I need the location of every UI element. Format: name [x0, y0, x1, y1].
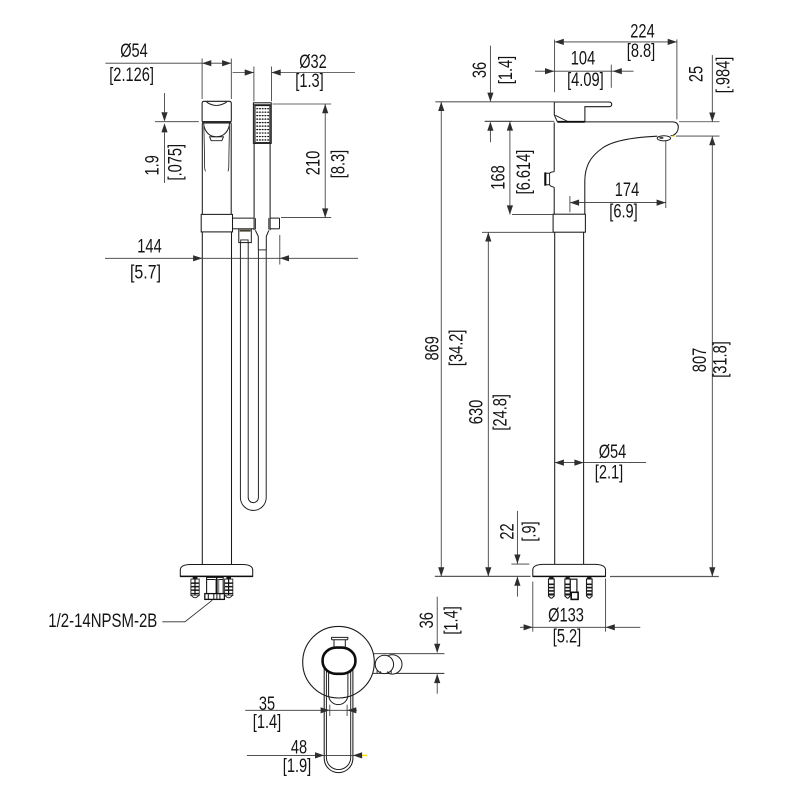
svg-text:[5.2]: [5.2]: [553, 626, 582, 647]
svg-text:[2.1]: [2.1]: [595, 463, 624, 484]
side view: hose nut: [571, 592, 578, 599]
dimension 224 overall depth: [554, 40, 556, 93]
svg-text:36: 36: [470, 62, 491, 78]
side view: holder collar: [553, 214, 585, 232]
front view: fitting notch: [241, 240, 248, 243]
floor line right segment: [610, 576, 719, 578]
front view: spray nozzle dots: [256, 108, 269, 141]
dimension 174 spout reach: [569, 196, 571, 212]
side view: lever handle: [554, 102, 611, 122]
front view: body shading curves: [204, 126, 206, 171]
front view: spout mouth U-curve: [204, 124, 230, 137]
svg-text:Ø32: Ø32: [299, 52, 327, 73]
front view: hand shower handle: [253, 143, 255, 230]
side view: right mounting stud: [587, 577, 591, 579]
front view: fitting gasket: [240, 230, 251, 232]
front view: hose outlet fitting: [239, 229, 252, 243]
front view: holder socket lines: [254, 218, 256, 229]
top view: holder arm lines: [373, 653, 444, 655]
svg-text:[24.8]: [24.8]: [491, 394, 512, 431]
dimension 1.9 seam: [155, 121, 199, 123]
yellow artifact near 48 dim: [361, 755, 367, 757]
side view: spout top and tip: [585, 122, 678, 136]
dimension 168 spout to collar: [485, 120, 555, 122]
side view: riser column: [554, 232, 556, 564]
dimension 25 spout depth: [679, 121, 720, 123]
svg-text:174: 174: [615, 180, 640, 201]
svg-text:[8.8]: [8.8]: [627, 41, 656, 62]
svg-text:[.075]: [.075]: [166, 144, 187, 181]
svg-text:144: 144: [137, 237, 162, 258]
front view: body sides: [201, 123, 203, 214]
dimension 869 overall height: [440, 102, 442, 577]
front view: base flange: [180, 565, 252, 577]
front view: holder collar: [201, 214, 232, 232]
svg-text:[1.4]: [1.4]: [442, 606, 463, 635]
front view: aerator trapezoid: [210, 137, 224, 141]
side view: handle/body seam: [557, 121, 585, 123]
svg-text:[.984]: [.984]: [713, 57, 734, 94]
top view: lever boss: [323, 648, 356, 674]
svg-text:210: 210: [304, 151, 325, 175]
dimension 48 handle width: [247, 754, 359, 756]
front view: handle cone to hose: [255, 230, 268, 250]
svg-text:Ø54: Ø54: [120, 41, 148, 62]
svg-text:630: 630: [466, 400, 487, 424]
svg-text:1.9: 1.9: [143, 155, 164, 175]
dimension 36 handle height: [489, 46, 491, 102]
dimension 807 spout height: [711, 136, 713, 576]
dimension D54 column: [555, 462, 646, 464]
svg-text:1/2-14NPSM-2B: 1/2-14NPSM-2B: [48, 611, 157, 632]
svg-text:168: 168: [489, 165, 510, 189]
front view: cap/body seam (1.9mm): [202, 121, 231, 123]
svg-text:25: 25: [687, 66, 708, 82]
front view: riser column: [201, 232, 203, 565]
dimension 144 holder reach: [279, 235, 281, 265]
dimension 630 column height: [482, 231, 553, 233]
dimension D133 base: [532, 582, 534, 632]
side view: aerator: [657, 136, 670, 141]
front view: hose U-bend: [240, 498, 266, 511]
front view: spout opening arc: [207, 102, 226, 106]
leader line 1/2-14NPSM-2B: [162, 600, 212, 622]
side view: diverter knob: [545, 172, 554, 188]
front view: middle supply fitting: [207, 577, 224, 593]
svg-text:[1.4]: [1.4]: [253, 712, 282, 733]
svg-text:[8.3]: [8.3]: [328, 150, 349, 179]
side view: body back edge: [553, 122, 555, 171]
svg-text:Ø133: Ø133: [548, 606, 584, 627]
svg-text:[31.8]: [31.8]: [710, 341, 731, 378]
dimension 36 arm width: [436, 597, 438, 653]
top view: body circle: [303, 626, 375, 698]
front view: right mounting stud: [226, 577, 231, 579]
side view: base flange: [533, 564, 606, 576]
svg-text:869: 869: [422, 336, 443, 360]
svg-text:36: 36: [417, 612, 438, 628]
dimension 104 handle length: [610, 65, 612, 88]
front view: hand shower head face: [255, 106, 270, 143]
svg-text:[34.2]: [34.2]: [447, 330, 468, 367]
svg-text:[1.3]: [1.3]: [295, 71, 324, 92]
svg-text:224: 224: [630, 22, 655, 43]
svg-text:[6.9]: [6.9]: [609, 201, 638, 222]
front view: holder arm: [233, 217, 255, 219]
top view: cartridge stack: [332, 637, 348, 639]
yellow artifact at spout tip: [672, 136, 675, 137]
svg-text:[.9]: [.9]: [520, 521, 541, 541]
top view: holder inner circle: [375, 655, 393, 673]
dimension 35 neck width: [329, 705, 331, 716]
svg-text:[6.614]: [6.614]: [514, 150, 535, 195]
top view: lever neck: [329, 671, 348, 705]
svg-text:Ø54: Ø54: [599, 442, 627, 463]
dimension 22 flange height: [511, 563, 529, 565]
svg-text:[4.09]: [4.09]: [567, 70, 604, 91]
front view: hand shower head outer: [253, 103, 271, 144]
front view: shower hose right strand: [257, 250, 259, 498]
front view: left mounting stud: [193, 577, 198, 579]
svg-text:[5.7]: [5.7]: [130, 263, 161, 284]
extension line handle top: [435, 101, 554, 103]
svg-text:[1.4]: [1.4]: [496, 56, 517, 85]
front view: holder clamp right edge: [279, 218, 281, 229]
side view: left mounting stud: [549, 577, 554, 579]
side view: middle mounting stud: [566, 577, 570, 579]
svg-text:[1.9]: [1.9]: [283, 756, 312, 777]
dimension 210 hand shower height: [273, 103, 332, 105]
top view: holder clamp feet: [376, 670, 378, 673]
svg-text:104: 104: [571, 48, 596, 69]
top view: lever handle inner: [326, 662, 350, 770]
side view: spout underside curve: [585, 136, 658, 214]
front view: faucet top cap: [202, 101, 231, 121]
dimension D32 hand shower: [253, 67, 255, 102]
svg-text:807: 807: [690, 348, 711, 372]
top view: holder outer circle: [383, 655, 402, 674]
front view: shower hose left strand: [239, 243, 241, 498]
side view: hose outlet block: [570, 579, 577, 592]
svg-text:22: 22: [497, 523, 518, 539]
front view: hose connection nut: [205, 594, 225, 600]
top view: lever handle outer: [324, 660, 353, 773]
dimension D54 top-left: [201, 59, 203, 100]
svg-text:[2.126]: [2.126]: [109, 65, 154, 86]
floor line left segment: [435, 575, 531, 577]
side view: handle base chamfer line: [555, 115, 568, 121]
